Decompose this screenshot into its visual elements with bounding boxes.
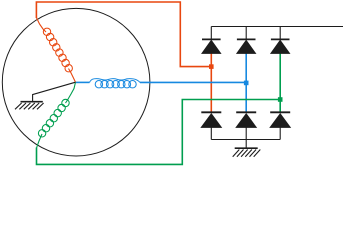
- winding L1 phase A lead-in: [36, 18, 46, 33]
- ground G1 symbol: [15, 102, 44, 110]
- wire phase A top run (orange): [36, 2, 211, 67]
- wire phase B (blue) right lead: [140, 81, 246, 83]
- winding L2 over-arc: [90, 79, 141, 83]
- wire phase A leg segment: [210, 53, 212, 112]
- winding L1 phase A coil: [43, 28, 72, 72]
- wire DC+ top rail: [211, 26, 343, 28]
- wire phase C bottom run (green): [37, 100, 281, 165]
- node junction phase C on leg 3: [278, 97, 283, 102]
- diode D2 (upper leg 2): [237, 27, 256, 54]
- node junction phase B on leg 2: [244, 81, 249, 86]
- winding L3 tail: [37, 134, 43, 148]
- wire DC- bottom rail: [211, 139, 280, 141]
- wire phase C leg segment: [279, 53, 281, 112]
- ground G2 wire: [245, 140, 247, 149]
- winding L3 phase C coil: [38, 99, 69, 137]
- wire phase B leg segment: [245, 53, 247, 112]
- diode D5 (lower leg 2): [236, 112, 256, 139]
- generator stator circle G1: [2, 8, 150, 156]
- wire phase B (blue) left lead: [76, 81, 90, 83]
- winding L1 tail: [69, 69, 76, 83]
- winding L2 phase B coil: [95, 81, 136, 88]
- diode D1 (upper leg 1): [202, 27, 221, 54]
- diode D6 (lower leg 3): [270, 112, 290, 139]
- diode D3 (upper leg 3): [271, 27, 290, 54]
- ground G1 neutral wire: [33, 82, 76, 102]
- winding L3 phase C lead: [66, 82, 76, 103]
- diode D4 (lower leg 1): [201, 112, 221, 139]
- node junction phase A on leg 1: [209, 64, 214, 69]
- ground G2 symbol: [233, 148, 261, 157]
